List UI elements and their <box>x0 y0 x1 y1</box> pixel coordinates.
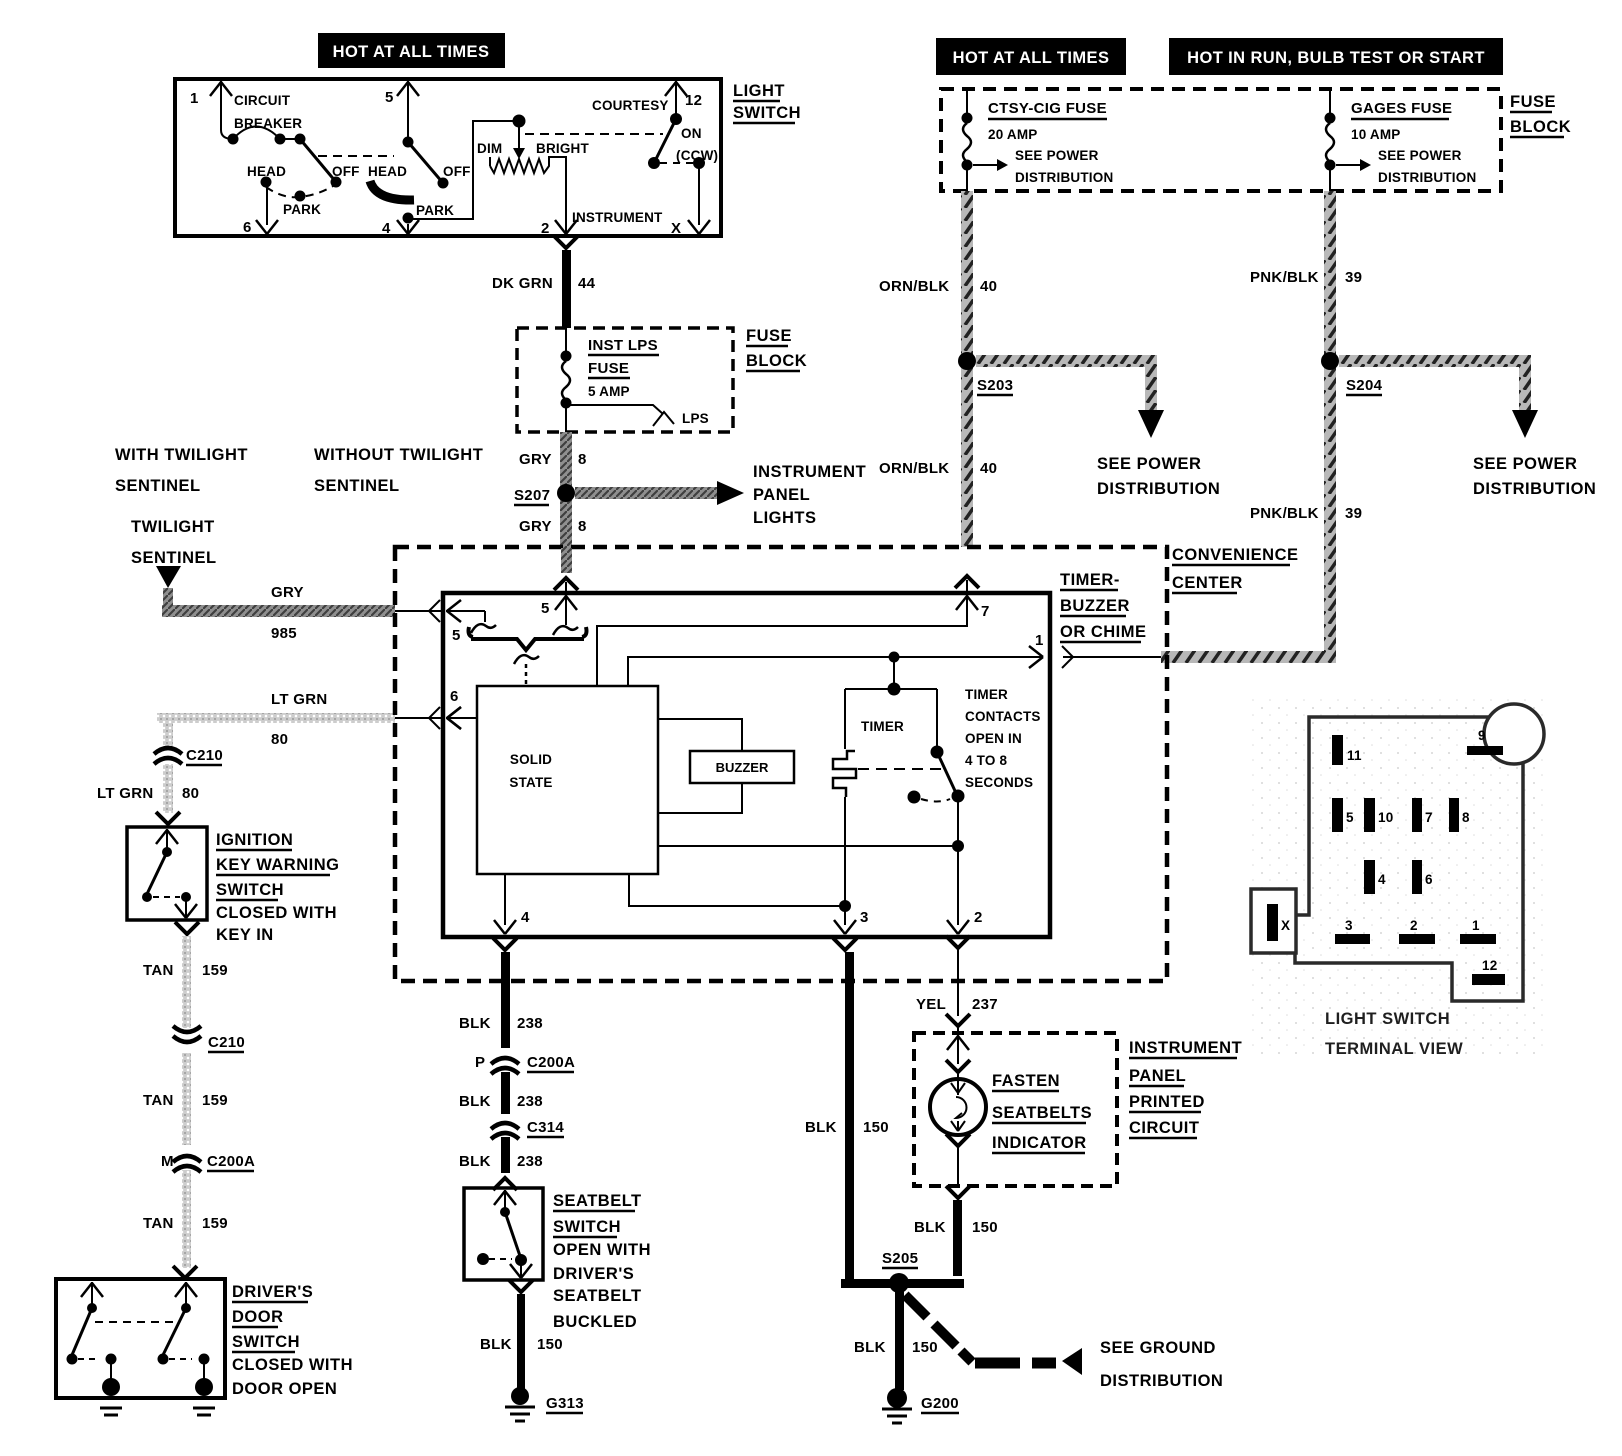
svg-text:5: 5 <box>385 89 394 106</box>
svg-text:150: 150 <box>972 1219 998 1236</box>
svg-text:WITH TWILIGHT: WITH TWILIGHT <box>115 446 248 464</box>
svg-text:CONTACTS: CONTACTS <box>965 709 1041 724</box>
svg-text:8: 8 <box>1462 810 1470 825</box>
svg-text:PNK/BLK: PNK/BLK <box>1250 269 1319 286</box>
svg-text:12: 12 <box>685 92 702 109</box>
svg-text:S204: S204 <box>1346 377 1383 394</box>
svg-text:9: 9 <box>1478 728 1486 743</box>
svg-text:CIRCUIT: CIRCUIT <box>1129 1119 1199 1137</box>
svg-text:X: X <box>671 220 681 237</box>
svg-text:BUCKLED: BUCKLED <box>553 1313 637 1331</box>
svg-text:SENTINEL: SENTINEL <box>115 477 201 495</box>
svg-text:1: 1 <box>1472 918 1480 933</box>
svg-text:C210: C210 <box>186 747 223 764</box>
svg-text:YEL: YEL <box>916 996 946 1013</box>
svg-text:6: 6 <box>1425 872 1433 887</box>
svg-text:LT GRN: LT GRN <box>97 785 154 802</box>
svg-text:TAN: TAN <box>143 1092 174 1109</box>
svg-text:39: 39 <box>1345 269 1362 286</box>
svg-text:8: 8 <box>578 518 587 535</box>
svg-text:DISTRIBUTION: DISTRIBUTION <box>1015 170 1113 185</box>
svg-text:1: 1 <box>1035 632 1044 649</box>
svg-text:DK GRN: DK GRN <box>492 275 553 292</box>
svg-text:6: 6 <box>450 688 459 705</box>
svg-text:GRY: GRY <box>519 451 552 468</box>
svg-text:6: 6 <box>243 219 252 236</box>
svg-text:4: 4 <box>382 220 391 237</box>
svg-text:LIGHT: LIGHT <box>733 82 785 100</box>
svg-text:ORN/BLK: ORN/BLK <box>879 460 949 477</box>
svg-text:150: 150 <box>912 1339 938 1356</box>
svg-text:FUSE: FUSE <box>1510 93 1556 111</box>
svg-text:150: 150 <box>863 1119 889 1136</box>
svg-text:SENTINEL: SENTINEL <box>314 477 400 495</box>
svg-text:SEE POWER: SEE POWER <box>1378 148 1462 163</box>
svg-text:TIMER-: TIMER- <box>1060 571 1120 589</box>
svg-text:BLK: BLK <box>914 1219 946 1236</box>
svg-text:44: 44 <box>578 275 596 292</box>
svg-text:40: 40 <box>980 278 997 295</box>
svg-text:BUZZER: BUZZER <box>1060 597 1130 615</box>
svg-text:SEATBELT: SEATBELT <box>553 1287 642 1305</box>
svg-text:SEE POWER: SEE POWER <box>1473 455 1577 473</box>
svg-text:INSTRUMENT: INSTRUMENT <box>1129 1039 1242 1057</box>
svg-text:PANEL: PANEL <box>1129 1067 1186 1085</box>
svg-text:12: 12 <box>1482 958 1497 973</box>
svg-text:IGNITION: IGNITION <box>216 831 293 849</box>
svg-text:985: 985 <box>271 625 297 642</box>
svg-text:BUZZER: BUZZER <box>716 760 769 775</box>
svg-text:BRIGHT: BRIGHT <box>536 141 589 156</box>
svg-text:SEE GROUND: SEE GROUND <box>1100 1339 1216 1357</box>
svg-text:KEY WARNING: KEY WARNING <box>216 856 339 874</box>
svg-text:4 TO 8: 4 TO 8 <box>965 753 1008 768</box>
svg-text:PARK: PARK <box>283 202 321 217</box>
svg-text:DISTRIBUTION: DISTRIBUTION <box>1473 480 1596 498</box>
svg-text:TAN: TAN <box>143 1215 174 1232</box>
svg-text:5: 5 <box>1346 810 1354 825</box>
svg-text:238: 238 <box>517 1015 543 1032</box>
svg-text:SEE POWER: SEE POWER <box>1015 148 1099 163</box>
svg-text:WITHOUT TWILIGHT: WITHOUT TWILIGHT <box>314 446 483 464</box>
svg-text:ON: ON <box>681 126 702 141</box>
svg-text:C200A: C200A <box>207 1153 255 1170</box>
svg-text:DRIVER'S: DRIVER'S <box>553 1265 634 1283</box>
svg-text:KEY IN: KEY IN <box>216 926 274 944</box>
svg-text:SENTINEL: SENTINEL <box>131 549 217 567</box>
svg-text:COURTESY: COURTESY <box>592 98 669 113</box>
svg-text:BREAKER: BREAKER <box>234 116 302 131</box>
svg-text:S203: S203 <box>977 377 1013 394</box>
svg-text:GRY: GRY <box>519 518 552 535</box>
svg-text:X: X <box>1281 918 1290 933</box>
svg-text:FUSE: FUSE <box>588 360 629 377</box>
svg-text:4: 4 <box>1378 872 1386 887</box>
svg-text:7: 7 <box>981 603 990 620</box>
svg-text:80: 80 <box>271 731 288 748</box>
svg-text:8: 8 <box>578 451 587 468</box>
svg-text:5: 5 <box>452 627 461 644</box>
svg-text:S207: S207 <box>514 487 550 504</box>
svg-text:80: 80 <box>182 785 199 802</box>
svg-text:SOLID: SOLID <box>510 752 552 767</box>
svg-text:159: 159 <box>202 962 228 979</box>
svg-text:G200: G200 <box>921 1395 959 1412</box>
svg-text:2: 2 <box>541 220 550 237</box>
svg-text:INST LPS: INST LPS <box>588 337 658 354</box>
svg-text:1: 1 <box>190 90 199 107</box>
svg-text:40: 40 <box>980 460 997 477</box>
svg-text:159: 159 <box>202 1215 228 1232</box>
svg-text:DOOR: DOOR <box>232 1308 284 1326</box>
svg-text:238: 238 <box>517 1093 543 1110</box>
svg-text:DOOR OPEN: DOOR OPEN <box>232 1380 337 1398</box>
svg-text:OFF: OFF <box>332 164 360 179</box>
svg-text:SWITCH: SWITCH <box>232 1333 300 1351</box>
svg-text:11: 11 <box>1347 748 1362 763</box>
svg-text:2: 2 <box>974 909 983 926</box>
svg-text:BLOCK: BLOCK <box>746 352 807 370</box>
svg-text:PRINTED: PRINTED <box>1129 1093 1205 1111</box>
svg-text:237: 237 <box>972 996 998 1013</box>
svg-text:5: 5 <box>541 600 550 617</box>
svg-text:150: 150 <box>537 1336 563 1353</box>
svg-text:39: 39 <box>1345 505 1362 522</box>
svg-text:BLK: BLK <box>459 1093 491 1110</box>
svg-text:CLOSED WITH: CLOSED WITH <box>232 1356 353 1374</box>
svg-text:BLK: BLK <box>480 1336 512 1353</box>
svg-text:10 AMP: 10 AMP <box>1351 127 1400 142</box>
svg-text:SECONDS: SECONDS <box>965 775 1033 790</box>
svg-text:HEAD: HEAD <box>368 164 407 179</box>
svg-text:SEATBELT: SEATBELT <box>553 1192 642 1210</box>
svg-text:PANEL: PANEL <box>753 486 810 504</box>
svg-text:OR CHIME: OR CHIME <box>1060 623 1147 641</box>
svg-text:S205: S205 <box>882 1250 918 1267</box>
svg-text:SWITCH: SWITCH <box>553 1218 621 1236</box>
svg-text:ORN/BLK: ORN/BLK <box>879 278 949 295</box>
svg-text:TAN: TAN <box>143 962 174 979</box>
svg-text:HOT AT ALL TIMES: HOT AT ALL TIMES <box>953 49 1110 67</box>
svg-text:C200A: C200A <box>527 1054 575 1071</box>
svg-text:BLK: BLK <box>805 1119 837 1136</box>
svg-text:BLK: BLK <box>459 1153 491 1170</box>
svg-text:DISTRIBUTION: DISTRIBUTION <box>1097 480 1220 498</box>
svg-text:CIRCUIT: CIRCUIT <box>234 93 291 108</box>
svg-text:INSTRUMENT: INSTRUMENT <box>572 210 663 225</box>
svg-text:SEE POWER: SEE POWER <box>1097 455 1201 473</box>
svg-text:DISTRIBUTION: DISTRIBUTION <box>1100 1372 1223 1390</box>
svg-text:FASTEN: FASTEN <box>992 1072 1060 1090</box>
svg-text:HOT AT ALL TIMES: HOT AT ALL TIMES <box>333 43 490 61</box>
svg-text:238: 238 <box>517 1153 543 1170</box>
svg-text:G313: G313 <box>546 1395 584 1412</box>
svg-text:OPEN IN: OPEN IN <box>965 731 1022 746</box>
svg-text:SWITCH: SWITCH <box>733 104 801 122</box>
svg-text:3: 3 <box>1345 918 1353 933</box>
svg-text:10: 10 <box>1378 810 1393 825</box>
svg-text:HOT IN RUN, BULB TEST OR STAR: HOT IN RUN, BULB TEST OR START <box>1187 49 1485 67</box>
svg-text:BLK: BLK <box>459 1015 491 1032</box>
svg-text:GRY: GRY <box>271 584 304 601</box>
svg-text:OPEN WITH: OPEN WITH <box>553 1241 651 1259</box>
svg-text:DISTRIBUTION: DISTRIBUTION <box>1378 170 1476 185</box>
svg-text:TWILIGHT: TWILIGHT <box>131 518 215 536</box>
svg-text:C210: C210 <box>208 1034 245 1051</box>
svg-text:INDICATOR: INDICATOR <box>992 1134 1087 1152</box>
svg-text:M: M <box>161 1153 174 1170</box>
svg-text:PARK: PARK <box>416 203 454 218</box>
svg-text:LT GRN: LT GRN <box>271 691 328 708</box>
svg-text:20 AMP: 20 AMP <box>988 127 1037 142</box>
svg-text:LIGHTS: LIGHTS <box>753 509 817 527</box>
svg-text:STATE: STATE <box>509 775 552 790</box>
svg-text:3: 3 <box>860 909 869 926</box>
svg-text:P: P <box>475 1054 485 1071</box>
svg-text:5 AMP: 5 AMP <box>588 384 630 399</box>
svg-text:GAGES FUSE: GAGES FUSE <box>1351 100 1452 117</box>
svg-text:SEATBELTS: SEATBELTS <box>992 1104 1092 1122</box>
svg-text:SWITCH: SWITCH <box>216 881 284 899</box>
svg-text:7: 7 <box>1425 810 1433 825</box>
svg-text:TIMER: TIMER <box>861 719 904 734</box>
svg-text:4: 4 <box>521 909 530 926</box>
svg-text:DRIVER'S: DRIVER'S <box>232 1283 313 1301</box>
svg-text:2: 2 <box>1410 918 1418 933</box>
svg-text:DIM: DIM <box>477 141 502 156</box>
svg-text:CTSY-CIG FUSE: CTSY-CIG FUSE <box>988 100 1107 117</box>
svg-text:INSTRUMENT: INSTRUMENT <box>753 463 866 481</box>
svg-text:PNK/BLK: PNK/BLK <box>1250 505 1319 522</box>
svg-text:CLOSED WITH: CLOSED WITH <box>216 904 337 922</box>
svg-text:C314: C314 <box>527 1119 564 1136</box>
svg-text:CENTER: CENTER <box>1172 574 1243 592</box>
svg-text:FUSE: FUSE <box>746 327 792 345</box>
svg-text:CONVENIENCE: CONVENIENCE <box>1172 546 1299 564</box>
svg-text:BLK: BLK <box>854 1339 886 1356</box>
svg-text:TERMINAL VIEW: TERMINAL VIEW <box>1325 1040 1463 1058</box>
svg-text:BLOCK: BLOCK <box>1510 118 1571 136</box>
svg-text:159: 159 <box>202 1092 228 1109</box>
svg-text:TIMER: TIMER <box>965 687 1008 702</box>
svg-text:LIGHT SWITCH: LIGHT SWITCH <box>1325 1010 1450 1028</box>
svg-text:LPS: LPS <box>682 411 709 426</box>
svg-text:OFF: OFF <box>443 164 471 179</box>
